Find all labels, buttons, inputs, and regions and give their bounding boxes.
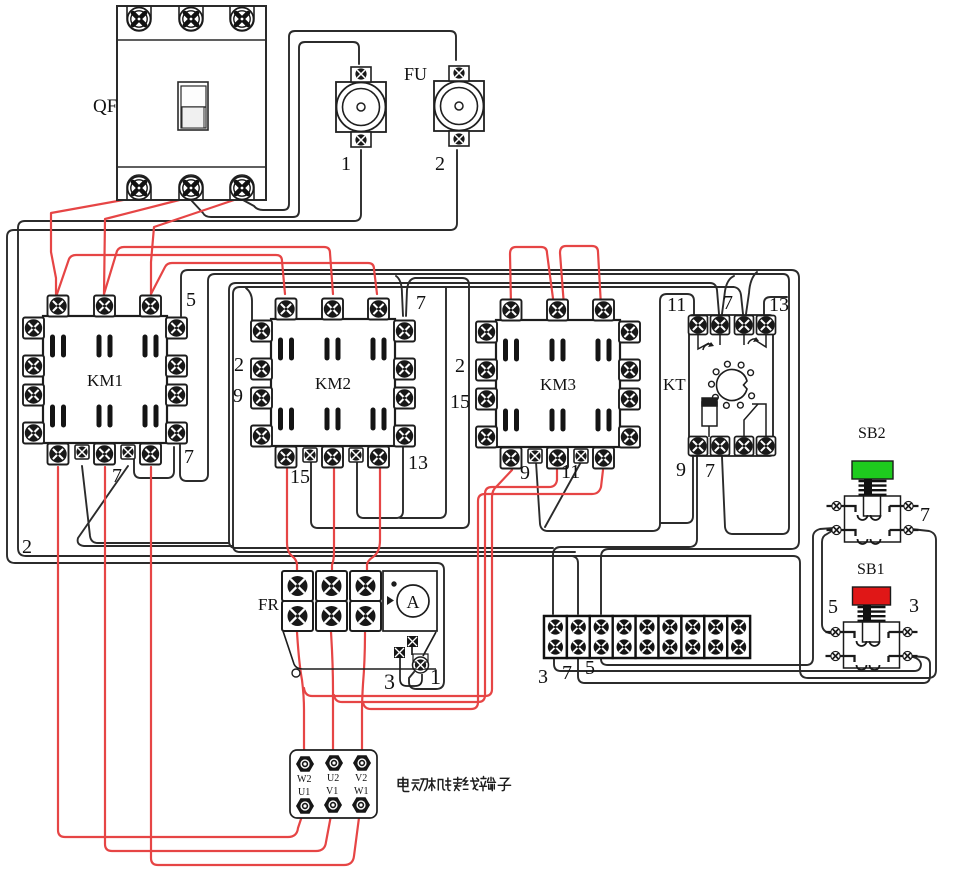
svg-text:13: 13 — [408, 452, 428, 474]
fuse FU2 — [434, 66, 484, 146]
SB1 body — [844, 622, 900, 668]
svg-text:5: 5 — [585, 657, 595, 679]
KT socket circle — [709, 361, 755, 408]
wire KM1-motor W1 — [151, 467, 360, 865]
svg-text:2: 2 — [455, 355, 465, 377]
terminal strip — [544, 616, 750, 658]
KT top terminals — [689, 316, 776, 335]
KT bottom contact — [744, 404, 766, 437]
thermal relay FR outline — [283, 631, 436, 669]
wire KT T3 leg — [746, 272, 757, 314]
wire KT B1 stub — [661, 457, 693, 523]
wire riser KT T3 — [233, 287, 743, 545]
wire SB2-SB1 link — [822, 529, 838, 634]
KT bottom terminals — [689, 437, 776, 456]
svg-text:3: 3 — [384, 669, 395, 694]
KM1 top terminals — [48, 296, 162, 317]
wire riser7 KT T2 — [229, 283, 719, 541]
svg-text:FR: FR — [258, 595, 279, 614]
svg-text:7: 7 — [723, 292, 733, 314]
SB1 spring — [858, 605, 886, 622]
svg-text:1: 1 — [430, 664, 441, 689]
wire strip5-SB2 — [601, 528, 834, 665]
FR aux terminal 3 — [394, 647, 405, 658]
motor terminal block — [290, 750, 377, 818]
wire KM2 T3 riser — [400, 287, 446, 518]
label motor terminals chinese (drawn strokes) — [398, 777, 510, 792]
pushbutton SB2 cap — [852, 461, 893, 479]
svg-text:W2: W2 — [297, 774, 311, 785]
wire KM2-FR 3 — [367, 467, 380, 571]
meter pointer wire — [423, 632, 436, 656]
svg-text:2: 2 — [22, 536, 32, 558]
svg-text:15: 15 — [290, 466, 310, 488]
svg-text:2: 2 — [234, 354, 244, 376]
svg-text:W1: W1 — [354, 786, 368, 797]
svg-text:7: 7 — [920, 504, 930, 526]
ammeter A — [383, 571, 437, 631]
wire QF-FU1 — [191, 42, 359, 217]
KM1 contacts — [50, 335, 159, 428]
KM3 contacts — [503, 339, 612, 432]
svg-text:KM3: KM3 — [540, 375, 576, 394]
wire FR aux loop — [400, 658, 422, 686]
wire QF-FU2 — [243, 31, 456, 210]
svg-text:U2: U2 — [327, 773, 339, 784]
svg-text:15: 15 — [450, 391, 470, 413]
wire KM1R1 wire5 — [181, 270, 799, 614]
svg-text:9: 9 — [520, 462, 530, 484]
wire KM2-FR 2 — [332, 467, 334, 571]
SB2 contact row 1 — [827, 506, 919, 520]
wire KM3 bridge 1 — [510, 247, 554, 306]
KM2 top terminals — [276, 299, 390, 320]
wire KM1-motor V1 — [105, 467, 332, 851]
svg-text:KM2: KM2 — [315, 374, 351, 393]
wire bus548 — [229, 541, 553, 548]
time relay KT body — [689, 315, 773, 456]
wire bus to strip 7 — [572, 556, 578, 614]
wire KT T2 leg — [722, 276, 734, 314]
wire KM2-FR 1 — [287, 467, 297, 571]
svg-text:11: 11 — [667, 294, 686, 316]
wire KM1-motor U1 — [58, 467, 304, 837]
svg-text:SB1: SB1 — [857, 561, 885, 578]
FR aux terminal 1 — [407, 636, 418, 647]
contactor KM3 body — [496, 320, 620, 447]
svg-text:U1: U1 — [298, 787, 310, 798]
wire FU1 control bus — [18, 150, 936, 678]
svg-text:FU: FU — [404, 64, 427, 84]
circuit breaker QF — [117, 6, 266, 200]
svg-text:V2: V2 — [355, 773, 367, 784]
wire FR-motor V2 — [362, 632, 365, 756]
FR terminal boxes — [282, 571, 381, 631]
KM1 right terminals — [166, 318, 187, 444]
wire QF-KM1 L1 — [51, 197, 140, 294]
wire KM1 coil c — [78, 466, 233, 546]
KT coil — [702, 398, 717, 437]
svg-text:5: 5 — [828, 596, 838, 618]
pushbutton SB1 cap — [853, 587, 891, 605]
SB2 body — [845, 496, 901, 542]
wire KM2 coil loop — [311, 278, 469, 528]
FR meter screw — [413, 654, 428, 662]
motor terminal labels — [297, 773, 368, 798]
SB1 contact row 2 — [826, 656, 918, 670]
svg-text:11: 11 — [561, 461, 580, 483]
KM3 top terminals — [501, 300, 615, 321]
svg-text:13: 13 — [769, 294, 789, 316]
svg-text:7: 7 — [705, 460, 715, 482]
SB1 contact row 1 — [826, 632, 918, 646]
KM2 contacts — [278, 338, 387, 431]
svg-text:3: 3 — [538, 666, 548, 688]
wire FR-KM3 1 — [304, 470, 512, 696]
KM3 bottom terminals — [501, 448, 615, 469]
SB2 contact row 2 — [827, 530, 919, 544]
wire FR-motor W2 — [297, 632, 305, 756]
wire KM1-KM2 L1 — [57, 255, 285, 294]
wire KM1 coil b — [82, 466, 229, 543]
wire KM1 aux7 bus — [180, 274, 789, 534]
wire FR-KM3 3 — [363, 470, 603, 709]
svg-text:A: A — [407, 592, 420, 612]
svg-text:7: 7 — [562, 662, 572, 684]
wire KM1-KM3 L3 — [151, 263, 377, 294]
wire KM2 R1 leg7 — [396, 276, 403, 316]
wire KT T4 leg — [764, 297, 787, 314]
svg-text:3: 3 — [909, 595, 919, 617]
wire KM3 coil c — [545, 462, 581, 527]
wire KM2 s2 jumper — [357, 445, 403, 518]
svg-text:7: 7 — [112, 465, 122, 487]
svg-text:2: 2 — [435, 153, 445, 175]
wire FU2 meter loop — [7, 150, 457, 689]
wire KM3 bridge 2 — [560, 246, 601, 306]
wire FR-motor U2 — [331, 632, 333, 756]
svg-text:9: 9 — [233, 385, 243, 407]
KM2 right terminals — [394, 321, 415, 447]
svg-text:QF: QF — [93, 96, 117, 117]
contactor KM1 body — [43, 316, 167, 443]
svg-text:9: 9 — [676, 459, 686, 481]
KM2 bottom terminals — [276, 447, 390, 468]
wire KM3 coil to KT — [536, 294, 694, 531]
wire strip3-SB1 — [554, 657, 921, 671]
KM3 left terminals — [476, 322, 497, 448]
contactor KM2 body — [271, 319, 395, 446]
svg-text:KT: KT — [663, 375, 686, 394]
svg-text:7: 7 — [184, 446, 194, 468]
KM1 bottom terminals — [48, 444, 162, 465]
svg-text:KM1: KM1 — [87, 371, 123, 390]
svg-text:5: 5 — [186, 289, 196, 311]
wire KM1-KM2 L2 — [104, 247, 333, 294]
wire KM2 L1 drop — [246, 288, 252, 330]
wire QF-KM1 L2 — [104, 197, 191, 294]
wire KM1 B3 jumper — [134, 446, 174, 478]
KM1 left terminals — [23, 318, 44, 444]
wire KT B1-strip3 — [553, 456, 697, 614]
wire bus552 — [233, 545, 575, 552]
svg-text:V1: V1 — [326, 786, 338, 797]
wire QF-KM1 L3 — [151, 197, 243, 294]
KM2 left terminals — [251, 321, 272, 447]
fuse FU1 — [336, 67, 386, 147]
svg-text:1: 1 — [341, 153, 351, 175]
wire strip7-SB1 — [578, 656, 930, 683]
svg-text:7: 7 — [416, 292, 426, 314]
KM3 right terminals — [619, 322, 640, 448]
svg-text:SB2: SB2 — [858, 425, 886, 442]
wire FR-KM3 2 — [334, 470, 557, 702]
KT internal contacts top — [698, 335, 766, 350]
SB2 spring — [859, 479, 887, 496]
